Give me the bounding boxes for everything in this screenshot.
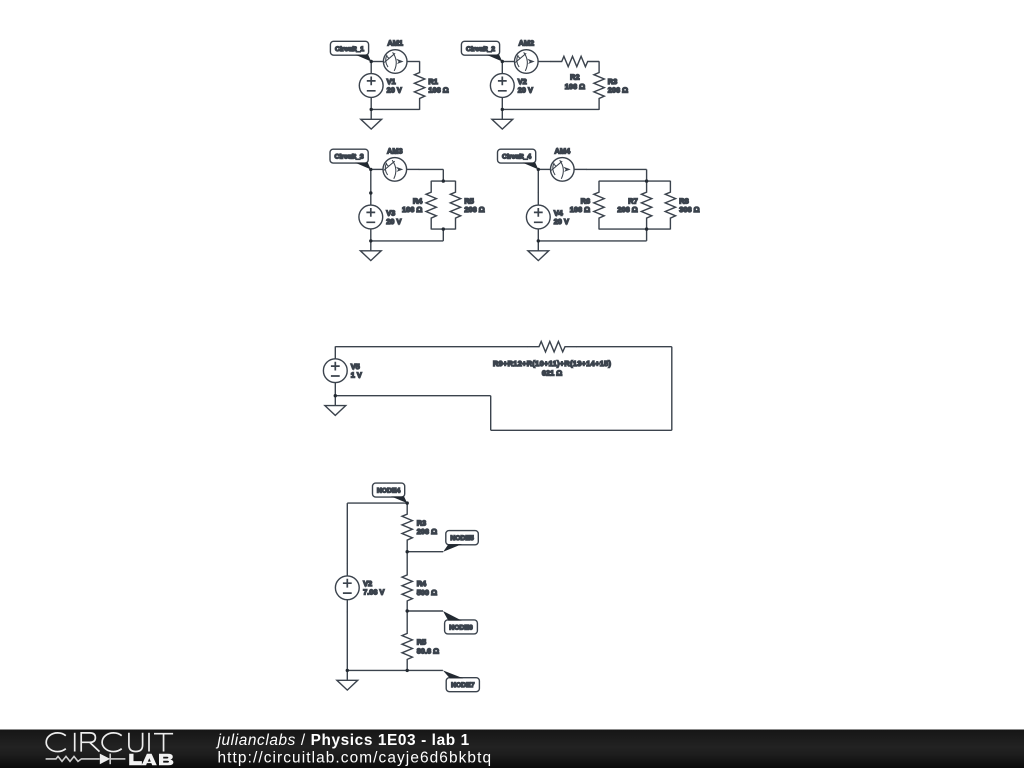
svg-text:80.6 Ω: 80.6 Ω (417, 646, 439, 655)
svg-text:106 Ω: 106 Ω (570, 205, 590, 214)
svg-text:AM4: AM4 (554, 146, 570, 155)
svg-text:NODE7: NODE7 (451, 682, 475, 689)
svg-text:NODE6: NODE6 (449, 624, 473, 631)
svg-text:106 Ω: 106 Ω (402, 205, 422, 214)
svg-text:20 V: 20 V (386, 217, 401, 226)
svg-text:AM2: AM2 (518, 38, 534, 47)
svg-text:7.06 V: 7.06 V (363, 588, 384, 597)
svg-text:206 Ω: 206 Ω (617, 205, 637, 214)
svg-text:Circuit_2: Circuit_2 (466, 46, 495, 53)
svg-text:NODE5: NODE5 (450, 535, 474, 542)
svg-text:Circuit_1: Circuit_1 (335, 46, 364, 53)
svg-text:106 Ω: 106 Ω (565, 82, 585, 91)
svg-text:http://circuitlab.com/cayje6d6: http://circuitlab.com/cayje6d6bkbtq (218, 750, 493, 767)
svg-text:AM1: AM1 (387, 38, 403, 47)
svg-text:206 Ω: 206 Ω (417, 527, 437, 536)
svg-text:500 Ω: 500 Ω (417, 588, 437, 597)
svg-text:julianclabs / Physics 1E03 - l: julianclabs / Physics 1E03 - lab 1 (216, 732, 470, 749)
svg-text:206 Ω: 206 Ω (464, 205, 484, 214)
svg-text:Circuit_3: Circuit_3 (335, 154, 364, 161)
svg-text:20 V: 20 V (387, 85, 402, 94)
svg-text:R9+R12+R(10+11)+R(13+14+15): R9+R12+R(10+11)+R(13+14+15) (493, 359, 612, 368)
svg-text:NODE4: NODE4 (377, 488, 401, 495)
svg-text:206 Ω: 206 Ω (608, 85, 628, 94)
svg-text:AM3: AM3 (387, 146, 403, 155)
svg-text:621 Ω: 621 Ω (542, 368, 562, 377)
svg-text:R2: R2 (570, 72, 579, 81)
svg-text:20 V: 20 V (554, 217, 569, 226)
svg-text:Circuit_4: Circuit_4 (502, 154, 531, 161)
svg-text:306 Ω: 306 Ω (679, 205, 699, 214)
svg-text:106 Ω: 106 Ω (428, 85, 448, 94)
svg-text:20 V: 20 V (518, 85, 533, 94)
svg-text:1 V: 1 V (351, 371, 362, 380)
